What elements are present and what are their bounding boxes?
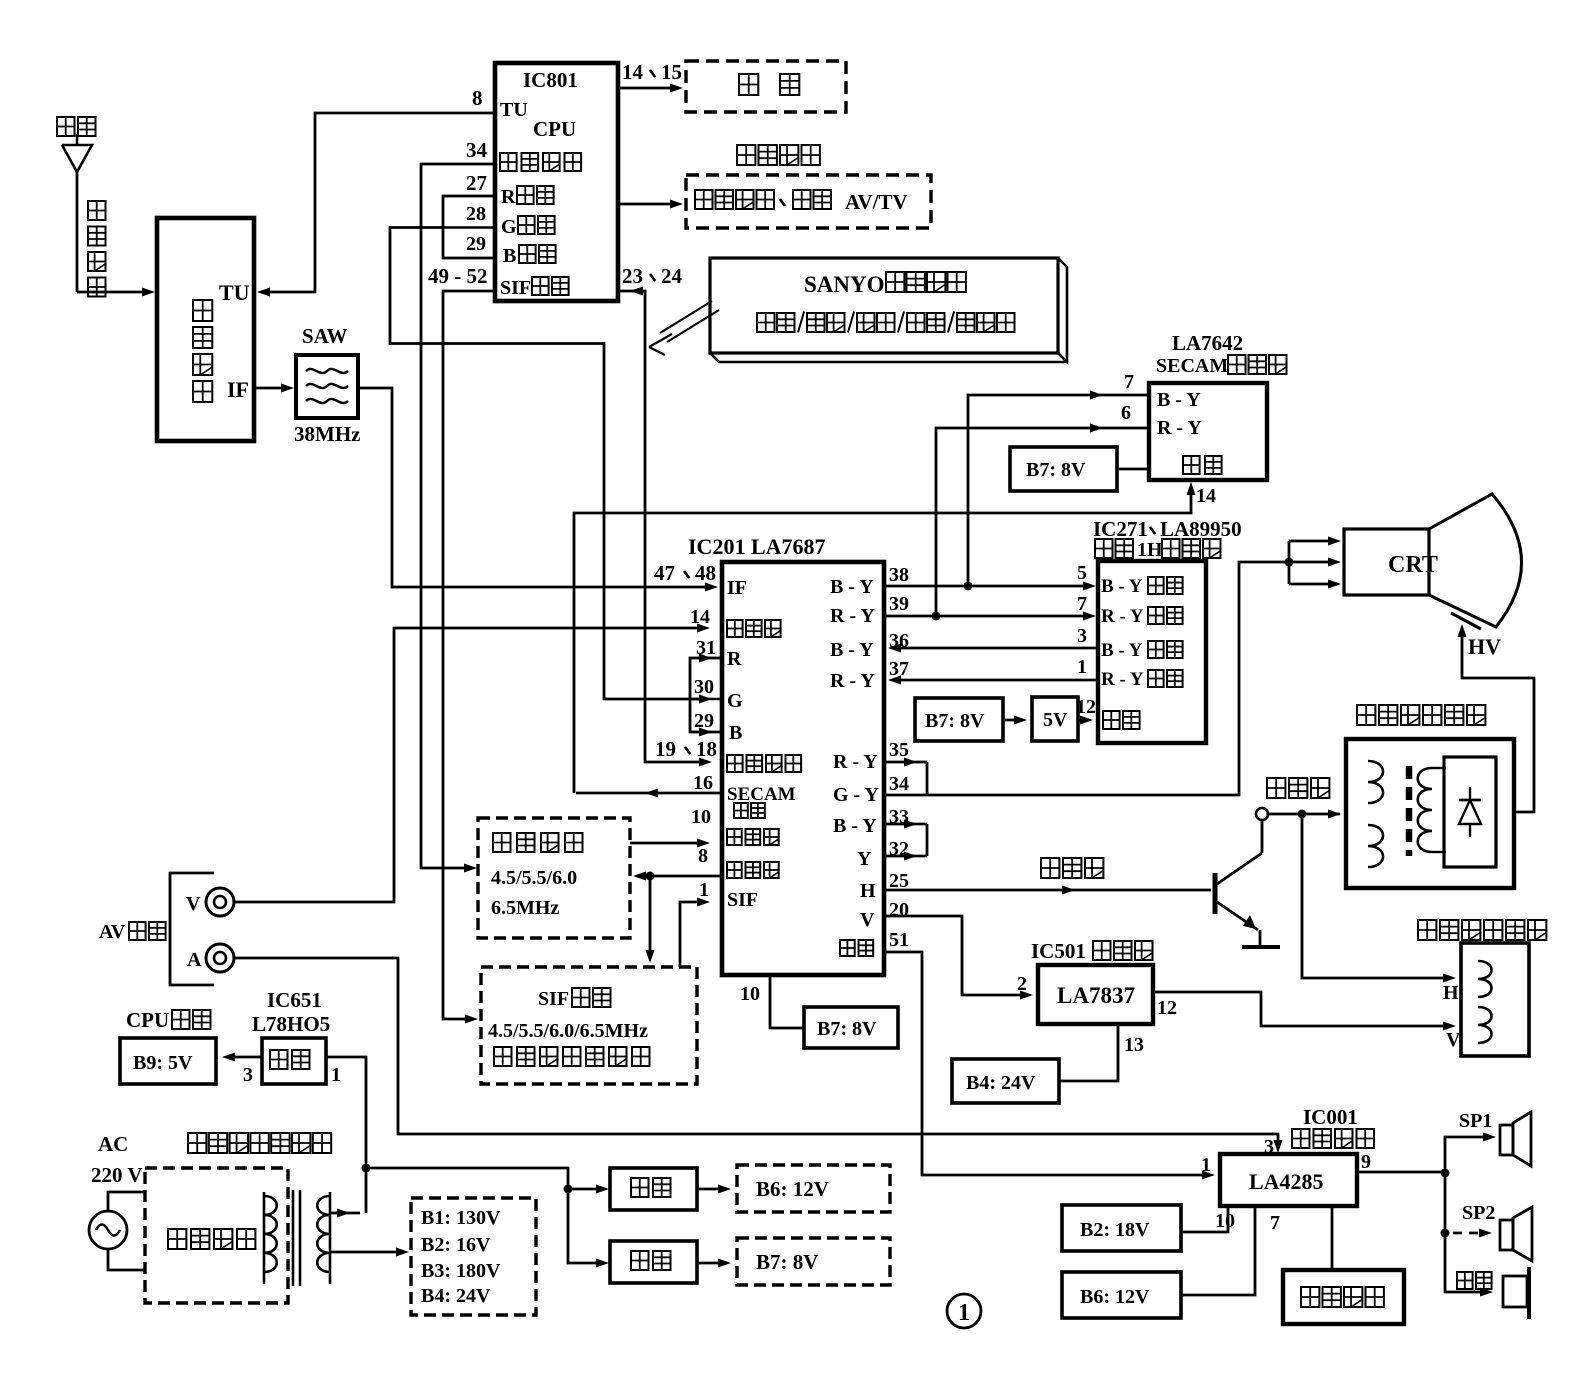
svg-text:6.5MHz: 6.5MHz xyxy=(491,897,559,919)
svg-text:2: 2 xyxy=(1017,973,1027,995)
tuner vertical label 电调谐器 xyxy=(193,300,212,402)
wire pins33/32 bracket xyxy=(884,820,927,861)
SAW wavy symbol xyxy=(306,369,348,403)
arrow into R pin31 xyxy=(699,654,712,663)
svg-text:15: 15 xyxy=(661,60,682,84)
wire AC to power circuit xyxy=(108,1192,145,1270)
IC801 label R输出 xyxy=(501,186,554,208)
block deflection yoke xyxy=(1461,943,1529,1056)
box B7:8V IC201 supply xyxy=(804,1007,898,1048)
svg-text:1H: 1H xyxy=(1137,539,1163,561)
svg-text:B6: 12V: B6: 12V xyxy=(1080,1286,1150,1308)
svg-text:IC801: IC801 xyxy=(523,68,578,92)
svg-text:B6: 12V: B6: 12V xyxy=(756,1177,829,1201)
wire SIF control 49-52 down to SIF switch box xyxy=(443,291,494,1024)
IC801 label G输出 xyxy=(501,216,555,238)
wire pin20 V to LA7837 pin2 xyxy=(884,916,1033,1000)
label 电源电路 xyxy=(168,1229,255,1249)
speaker SP1 xyxy=(1500,1112,1531,1166)
svg-text:CPU: CPU xyxy=(126,1008,169,1032)
delay label R-Y输入 xyxy=(1101,606,1183,627)
svg-text:6: 6 xyxy=(1121,402,1131,424)
label 低音扩展、音量 AV/TV xyxy=(695,190,908,214)
IC801 label B输出 xyxy=(503,245,556,267)
svg-text:7: 7 xyxy=(1124,371,1134,393)
label V xyxy=(186,893,201,915)
IC201 label SIF xyxy=(727,889,758,911)
svg-text:1: 1 xyxy=(1201,1154,1211,1176)
svg-text:IC271: IC271 xyxy=(1093,517,1148,541)
box B9:5V CPU supply xyxy=(120,1038,216,1084)
IC201 label 总线接口 xyxy=(727,755,801,772)
svg-text:4.5/5.5/6.0/6.5MHz: 4.5/5.5/6.0/6.5MHz xyxy=(488,1020,648,1042)
svg-text:B4: 24V: B4: 24V xyxy=(966,1072,1036,1094)
pin label 37 xyxy=(889,658,909,680)
label CRT xyxy=(1388,552,1438,578)
label SIF开关 xyxy=(538,988,611,1010)
svg-text:SANYO: SANYO xyxy=(804,272,885,297)
transistor horizontal output xyxy=(1215,821,1262,945)
wire 低音扩展 to LA4285 xyxy=(1331,1206,1334,1270)
svg-text:IC501: IC501 xyxy=(1031,939,1086,963)
wire B7 8V to decoder xyxy=(1117,468,1149,471)
svg-text:V: V xyxy=(860,909,875,931)
wire IC801 pins23,24 I2C bus to IC201 bus interface xyxy=(618,287,712,767)
block LA7837 xyxy=(1038,965,1153,1024)
svg-text:H: H xyxy=(1443,982,1459,1004)
svg-text:10: 10 xyxy=(691,806,711,828)
wire B+ rail to regulators xyxy=(366,1168,609,1268)
IC801 label 伴音陷波 xyxy=(500,153,581,171)
speaker 耳机 xyxy=(1503,1267,1529,1319)
tuner pin label TU xyxy=(219,280,250,305)
svg-text:19: 19 xyxy=(655,737,676,761)
svg-text:1: 1 xyxy=(331,1064,341,1086)
svg-text:3: 3 xyxy=(243,1064,253,1086)
svg-text:34: 34 xyxy=(889,773,909,795)
pin label 20 xyxy=(889,899,909,921)
flyback diode box xyxy=(1444,757,1496,867)
wire V jack to IC201 外视频 xyxy=(234,624,710,903)
label B4: 24V xyxy=(421,1285,491,1307)
svg-text:48: 48 xyxy=(695,561,716,585)
wire 行输出 node to flyback xyxy=(1268,810,1341,819)
pin label 38 xyxy=(889,564,909,586)
block IC201 LA7687 xyxy=(722,562,884,975)
svg-text:39: 39 xyxy=(889,593,909,615)
wire IC651 pin3 to B9 xyxy=(222,1053,262,1062)
wire pin51 audio to LA4285 pin1 xyxy=(884,952,1215,1180)
box B6:12V solid xyxy=(1062,1272,1181,1318)
wire pin38 B-Y to delay pin5 and decoder pin7 xyxy=(884,391,1149,591)
decoder label B-Y xyxy=(1157,389,1201,411)
wire 5V to delay pin12 xyxy=(1078,716,1093,725)
CRT tube xyxy=(1344,494,1522,627)
svg-text:CRT: CRT xyxy=(1388,552,1438,578)
svg-text:12: 12 xyxy=(1157,997,1177,1019)
svg-text:A: A xyxy=(187,949,202,971)
IC201 label 音频 xyxy=(840,940,873,956)
delay pin label 7 xyxy=(1077,593,1087,615)
svg-text:H: H xyxy=(860,880,876,902)
CRT input bracket xyxy=(1289,537,1341,589)
IC201 label R-Y pin35 xyxy=(833,751,878,773)
tuner pin label IF xyxy=(227,377,249,402)
pin label 7 xyxy=(1270,1212,1280,1234)
label H xyxy=(1443,982,1459,1004)
RCA jack A xyxy=(206,944,234,972)
svg-text:35: 35 xyxy=(889,739,909,761)
svg-text:1: 1 xyxy=(699,879,709,901)
flyback core dashed xyxy=(1406,766,1413,856)
svg-text:Y: Y xyxy=(857,848,872,870)
svg-text:AV/TV: AV/TV xyxy=(845,190,908,214)
IC201 label G xyxy=(727,690,743,712)
dashed box B6:12V xyxy=(737,1165,890,1212)
svg-text:14: 14 xyxy=(1196,485,1216,507)
wire B4 24V to LA7837 pin13 xyxy=(1059,1024,1118,1081)
label 38MHz xyxy=(294,422,360,446)
wire sound trap to IC201 视频入 pin10 xyxy=(630,839,710,848)
wire IC801 pin34 to sound trap box xyxy=(421,164,494,873)
delay pin label 3 xyxy=(1077,625,1087,647)
decoder pin label 6 xyxy=(1121,402,1131,424)
wire IC801 G output routing to IC201 xyxy=(390,228,712,704)
pin label 25 xyxy=(889,870,909,892)
pin label 31 xyxy=(696,637,716,659)
IC201 label SECAM视频 xyxy=(727,784,796,818)
box B2:18V xyxy=(1062,1205,1181,1251)
IC801 label TU xyxy=(500,99,528,121)
svg-text:LA89950: LA89950 xyxy=(1160,517,1242,541)
decoder label 视频 xyxy=(1183,456,1222,474)
svg-text:G: G xyxy=(501,216,517,238)
pin label 10 视频入 xyxy=(691,806,711,828)
label 键控 xyxy=(739,74,799,95)
wire SAW output to IC201 IF pin 47,48 xyxy=(358,388,718,592)
pin label 36 xyxy=(889,630,909,652)
label HV xyxy=(1468,634,1501,659)
svg-text:AV: AV xyxy=(99,921,126,943)
label L78HO5 xyxy=(252,1012,330,1036)
box B4:24V xyxy=(952,1059,1059,1103)
svg-text:3: 3 xyxy=(1264,1136,1274,1158)
svg-text:5V: 5V xyxy=(1043,709,1068,731)
svg-text:TU: TU xyxy=(219,280,250,305)
pin label 19、18 xyxy=(655,737,717,761)
pin label 3 xyxy=(243,1064,253,1086)
label 亮度/锐度/彩色/色相/对比度 xyxy=(757,312,1015,333)
svg-text:SP2: SP2 xyxy=(1462,1202,1495,1224)
svg-text:29: 29 xyxy=(694,710,714,732)
svg-text:SP1: SP1 xyxy=(1459,1110,1492,1132)
pin label 13 xyxy=(1124,1034,1144,1056)
antenna symbol 天线 xyxy=(62,134,92,292)
pin label 12 xyxy=(1157,997,1177,1019)
AC source symbol xyxy=(89,1211,127,1249)
svg-text:IC001: IC001 xyxy=(1303,1105,1358,1129)
IC201 label 外视频 xyxy=(727,620,781,637)
label B2: 16V xyxy=(421,1234,491,1256)
label 4.5/5.5/6.0 xyxy=(491,867,577,889)
label 行输出变压器 xyxy=(1357,705,1485,725)
LA7837 text xyxy=(1057,983,1135,1008)
dashed box B7:8V xyxy=(737,1238,890,1285)
svg-text:23: 23 xyxy=(622,264,643,288)
IC801 label SIF控制 xyxy=(500,277,569,299)
label IC001 xyxy=(1303,1105,1358,1129)
svg-text:R - Y: R - Y xyxy=(830,670,875,692)
label SP2 xyxy=(1462,1202,1495,1224)
arrow into B pin29 xyxy=(699,728,712,737)
box B7:8V delay supply xyxy=(915,698,1003,741)
yoke H coil xyxy=(1478,961,1492,997)
pin label 8 xyxy=(472,86,483,110)
svg-text:49 - 52: 49 - 52 xyxy=(428,264,488,288)
pin label 34 xyxy=(466,138,488,162)
svg-text:B2: 18V: B2: 18V xyxy=(1080,1219,1150,1241)
svg-text:B9: 5V: B9: 5V xyxy=(133,1052,193,1074)
pin label 2 xyxy=(1017,973,1027,995)
svg-text:G: G xyxy=(727,690,743,712)
IC201 label IF xyxy=(727,577,747,599)
svg-text:34: 34 xyxy=(466,138,488,162)
svg-text:16: 16 xyxy=(693,772,713,794)
svg-text:AC: AC xyxy=(98,1132,128,1156)
pin label 10 bottom xyxy=(740,983,760,1005)
wire B7 to 5V box xyxy=(1003,716,1027,725)
svg-text:R - Y: R - Y xyxy=(1157,417,1202,439)
pin label 3 xyxy=(1264,1136,1274,1158)
svg-text:IF: IF xyxy=(227,377,249,402)
svg-text:24: 24 xyxy=(661,264,683,288)
pin label 33 xyxy=(889,806,909,828)
wire antenna to tuner xyxy=(77,288,155,297)
box 稳压 IC651 regulator xyxy=(262,1038,326,1084)
wire IC201 pin10 bottom to B7 8V xyxy=(770,975,804,1028)
svg-text:8: 8 xyxy=(698,845,708,867)
pin label 51 xyxy=(889,929,909,951)
box B7:8V decoder supply xyxy=(1010,447,1117,491)
label 220 V xyxy=(91,1163,143,1187)
wire IC201 SECAM pin16 to decoder video pin14 xyxy=(574,482,1196,798)
wire A jack audio to LA4285 pin3 xyxy=(234,958,1283,1153)
wire pins35/34 bracket to CRT xyxy=(884,558,1341,796)
delay label R-Y输出 xyxy=(1101,669,1183,690)
pin number box 28/29 at IC801 xyxy=(443,196,495,258)
RCA jack V xyxy=(206,888,234,916)
label A xyxy=(187,949,202,971)
pin label 27 xyxy=(466,171,487,195)
svg-text:R - Y: R - Y xyxy=(830,605,875,627)
flyback secondary coil xyxy=(1418,768,1446,852)
wire delay B-Y out pin3 to IC201 pin36 xyxy=(888,644,1098,653)
delay label B-Y输出 xyxy=(1101,640,1183,661)
svg-text:5: 5 xyxy=(1077,562,1087,584)
label 伴音陷波 xyxy=(493,833,583,852)
LA4285 text xyxy=(1249,1169,1324,1194)
block IC801 CPU xyxy=(495,63,618,301)
pin label 1 xyxy=(331,1064,341,1086)
switching transformer symbol xyxy=(264,1190,330,1286)
delay pin label 1 xyxy=(1077,656,1087,678)
svg-text:220 V: 220 V xyxy=(91,1163,143,1187)
pin label 32 xyxy=(889,838,909,860)
svg-text:29: 29 xyxy=(466,233,486,255)
IC201 label Y pin32 xyxy=(857,848,872,870)
circled number 1 xyxy=(947,1294,981,1328)
svg-text:27: 27 xyxy=(466,171,487,195)
wire IC651 pin1 from transformer rail xyxy=(326,1057,366,1213)
antenna input vertical label 天线输入 xyxy=(88,201,106,297)
svg-text:TU: TU xyxy=(500,99,528,121)
delay label 电源 xyxy=(1103,711,1140,729)
block TU tuner 电调谐器 xyxy=(157,218,254,441)
svg-text:28: 28 xyxy=(466,203,486,225)
svg-text:B - Y: B - Y xyxy=(1157,389,1201,411)
IC201 title IC201 LA7687 xyxy=(688,534,826,559)
delay label B-Y输入 xyxy=(1101,576,1183,597)
decoder pin label 7 xyxy=(1124,371,1134,393)
svg-text:3: 3 xyxy=(1077,625,1087,647)
svg-text:HV: HV xyxy=(1468,634,1501,659)
svg-text:IC201 LA7687: IC201 LA7687 xyxy=(688,534,826,559)
label 开关电源变压器 xyxy=(188,1133,331,1153)
svg-text:B7: 8V: B7: 8V xyxy=(756,1250,818,1274)
block LA4285 xyxy=(1220,1154,1357,1206)
svg-text:8: 8 xyxy=(472,86,483,110)
label SAW xyxy=(302,324,348,348)
wire LA7837 pin12 to yoke V xyxy=(1153,992,1456,1031)
svg-text:18: 18 xyxy=(696,737,717,761)
label SANYO模拟总线 xyxy=(804,272,966,297)
IC201 label B-Y pin33 xyxy=(833,815,877,837)
svg-text:SIF: SIF xyxy=(500,277,531,299)
svg-text:1: 1 xyxy=(1077,656,1087,678)
CRT anode mark xyxy=(1451,613,1481,629)
flyback primary coils xyxy=(1368,761,1383,867)
wire pin39 R-Y to delay pin7 and decoder pin6 xyxy=(884,424,1149,621)
wire IC801 pins14,15 to key control box xyxy=(618,84,683,93)
svg-text:SECAM: SECAM xyxy=(1156,355,1228,377)
box 5V regulator xyxy=(1032,697,1078,741)
pin label 16 SECAM xyxy=(693,772,713,794)
svg-text:4.5/5.5/6.0: 4.5/5.5/6.0 xyxy=(491,867,577,889)
dashed box 电源电路 power circuit xyxy=(145,1168,288,1303)
pin label 39 xyxy=(889,593,909,615)
diode symbol xyxy=(1459,787,1481,837)
dashed box 低音扩展、音量 AV/TV xyxy=(686,175,931,228)
pin label 9 xyxy=(1361,1151,1371,1173)
wire IC201 视频出 pin8 to sound trap and SIF switch xyxy=(633,872,722,964)
svg-text:SECAM: SECAM xyxy=(727,784,796,805)
svg-text:B: B xyxy=(729,722,742,744)
svg-text:B - Y: B - Y xyxy=(830,639,874,661)
label 6.5MHz xyxy=(491,897,559,919)
label 色度1H延迟线 xyxy=(1095,539,1221,561)
svg-text:13: 13 xyxy=(1124,1034,1144,1056)
svg-text:IF: IF xyxy=(727,577,747,599)
wire regulator to B6 xyxy=(697,1185,731,1194)
wire pin25 H drive to transistor base xyxy=(884,886,1211,895)
wire 行输出 to yoke H xyxy=(1302,814,1456,983)
svg-text:R - Y: R - Y xyxy=(833,751,878,773)
wire IC801 pin8 to tuner TU xyxy=(257,113,494,297)
IC201 label 视频入 xyxy=(727,829,779,845)
IC201 label R xyxy=(727,648,742,670)
dashed box 伴音陷波 sound trap 4.5/5.5/6.0/6.5MHz xyxy=(478,818,630,938)
label 行驱动 xyxy=(1041,858,1103,878)
svg-text:B - Y: B - Y xyxy=(1101,640,1143,661)
box 稳压 regulator lower xyxy=(610,1241,697,1283)
svg-text:1: 1 xyxy=(958,1300,970,1326)
label SP1 xyxy=(1459,1110,1492,1132)
svg-text:30: 30 xyxy=(694,676,714,698)
block IC271 chroma 1H delay line xyxy=(1098,561,1206,743)
svg-text:B - Y: B - Y xyxy=(1101,576,1143,597)
svg-text:SIF: SIF xyxy=(538,988,569,1010)
IC201 label H pin25 xyxy=(860,880,876,902)
svg-text:CPU: CPU xyxy=(533,117,576,141)
wire SIF switch to IC201 SIF pin1 xyxy=(680,898,710,968)
pin label 1 SIF xyxy=(699,879,709,901)
wire transformer output to B1-B4 xyxy=(330,1248,409,1257)
wire tuner IF to SAW xyxy=(255,384,294,393)
svg-text:R - Y: R - Y xyxy=(1101,669,1144,690)
label AC xyxy=(98,1132,128,1156)
label V xyxy=(1446,1029,1461,1051)
label 行场偏转线圈 xyxy=(1418,920,1546,940)
IC201 label B xyxy=(729,722,742,744)
ground symbol xyxy=(1242,945,1280,949)
svg-text:14: 14 xyxy=(622,60,644,84)
wire IC801 to digital control box xyxy=(618,200,683,209)
svg-text:10: 10 xyxy=(740,983,760,1005)
wire LA4285 pin9 to speakers xyxy=(1357,1133,1496,1297)
label 行输出 xyxy=(1267,778,1329,798)
pin label 8 视频出 xyxy=(698,845,708,867)
dashed box B1-B4 voltages xyxy=(411,1198,536,1315)
pin label 14 外视频 xyxy=(690,606,710,628)
svg-text:SIF: SIF xyxy=(727,889,758,911)
label IC271、LA89950 xyxy=(1093,517,1242,541)
svg-text:B1: 130V: B1: 130V xyxy=(421,1207,501,1229)
IC201 label 视频出 xyxy=(727,862,779,878)
block LA7642 SECAM decoder xyxy=(1149,383,1267,480)
label IC651 xyxy=(267,988,322,1012)
dashed box SIF开关 switch bandpass filter xyxy=(481,967,697,1084)
delay pin label 5 xyxy=(1077,562,1087,584)
pin number box 30/29 at IC201 xyxy=(690,658,722,732)
double-line arrow from SANYO bus to I2C wire xyxy=(649,301,719,355)
IC201 label V pin20 xyxy=(860,909,875,931)
svg-text:R - Y: R - Y xyxy=(1101,606,1144,627)
block flyback transformer xyxy=(1346,739,1514,888)
IC201 label B-Y pin38 xyxy=(830,576,874,598)
IC201 label G-Y pin34 xyxy=(833,784,879,806)
pin label 47、48 xyxy=(654,561,716,585)
dashed box 键控 key control xyxy=(686,61,846,112)
svg-text:LA7837: LA7837 xyxy=(1057,983,1135,1008)
label B3: 180V xyxy=(421,1260,501,1282)
svg-text:7: 7 xyxy=(1270,1212,1280,1234)
speaker SP2 xyxy=(1500,1207,1532,1261)
svg-text:B7: 8V: B7: 8V xyxy=(1026,459,1086,481)
svg-text:38MHz: 38MHz xyxy=(294,422,360,446)
pin label 1 xyxy=(1201,1154,1211,1176)
wire flyback to HV anode xyxy=(1458,624,1535,812)
svg-text:B7: 8V: B7: 8V xyxy=(817,1018,877,1040)
